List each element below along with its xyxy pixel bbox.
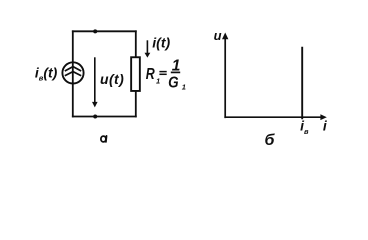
svg-text:iв: iв <box>300 118 309 136</box>
axis i (horizontal, graph) <box>224 114 326 120</box>
svg-text:u(t): u(t) <box>100 71 124 87</box>
current source Ig (circle symbol) <box>62 62 83 83</box>
svg-text:б: б <box>265 132 276 149</box>
svg-text:1: 1 <box>156 76 160 85</box>
axis u (vertical, graph) <box>222 33 228 119</box>
node A (top junction dot) <box>93 29 97 33</box>
value 1/G1 fraction <box>168 57 186 91</box>
voltage arrow u(t) <box>92 57 98 107</box>
svg-text:i: i <box>323 118 328 134</box>
svg-text:1: 1 <box>182 82 186 91</box>
resistor R1 <box>131 57 140 91</box>
characteristic line at i=iв <box>301 47 303 119</box>
wire left <box>72 30 74 117</box>
svg-text:R: R <box>146 65 156 83</box>
wire right <box>135 30 137 117</box>
label a (figure a) <box>101 136 107 142</box>
wire bottom <box>72 116 137 118</box>
wire top <box>72 30 137 32</box>
svg-text:G: G <box>168 74 178 91</box>
node B (bottom junction dot) <box>93 115 97 119</box>
svg-text:i(t): i(t) <box>152 34 170 50</box>
equals sign <box>159 72 166 75</box>
svg-text:iв(t): iв(t) <box>35 65 58 83</box>
svg-text:u: u <box>214 28 222 43</box>
current arrow i(t) <box>145 40 151 57</box>
